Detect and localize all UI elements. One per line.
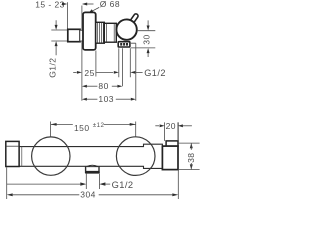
dimension 20 right tail wire [183, 125, 192, 127]
dimension 80 arrow left-pointing [82, 85, 87, 88]
union nut square [68, 29, 80, 41]
outlet knurled nut [118, 42, 130, 47]
dimension G1/2 inlet down-pointing arrow [55, 25, 58, 30]
dimension 25 tail wire [73, 71, 76, 73]
dimension 25 arrow right-pointing [77, 71, 82, 74]
handle knob circle [116, 19, 136, 39]
dimension 304 arrow right end [172, 193, 178, 196]
dimension 30 lower tail wire [147, 53, 149, 57]
dimension 30 upper tail wire [147, 20, 149, 25]
outlet G1/2 tail wire (bottom figure) [105, 183, 110, 185]
left escutcheon circle [32, 137, 70, 175]
dimension 304 arrow left end [7, 193, 13, 196]
bar seam line [21, 147, 23, 167]
extension line escutcheon front face [95, 51, 97, 77]
dimension 30 down-pointing arrow [147, 26, 150, 31]
svg-text:G1/2: G1/2 [47, 58, 57, 78]
dimension 15-23 arrow right-pointing [62, 3, 67, 6]
svg-text:80: 80 [98, 81, 108, 91]
svg-text:30: 30 [142, 34, 152, 44]
svg-text:Ø 68: Ø 68 [100, 0, 120, 9]
dimension 150 line wires [51, 123, 136, 125]
outlet G1/2 extension lines (bottom figure) [86, 174, 99, 189]
outlet G1/2 arrow right-pointing [114, 71, 119, 74]
right shut-off knob [162, 146, 178, 170]
left temperature knob [6, 141, 19, 166]
dimension 103 right wire [116, 98, 131, 100]
svg-text:103: 103 [98, 94, 114, 104]
ribbed union nut ridges [98, 23, 104, 43]
dimension G1/2 inlet up-pointing arrow [55, 41, 58, 46]
outlet G1/2 arrow right-pointing (bottom figure) [80, 182, 86, 185]
svg-text:G1/2: G1/2 [144, 68, 166, 78]
valve axis extension line [138, 30, 156, 32]
outlet aerator ring [85, 171, 100, 174]
dimension G1/2 inlet upper tail wire [55, 20, 57, 25]
dimension 20 left tail wire [155, 125, 159, 127]
dimension 103 arrow right-pointing [131, 98, 136, 101]
dimension 103 arrow left-pointing [82, 98, 87, 101]
extension line from knob front face [131, 43, 136, 100]
dimension 38 down-pointing arrow [190, 164, 193, 169]
supply pipe outline wires [51, 30, 68, 41]
svg-text:G1/2: G1/2 [112, 180, 134, 190]
dimension 304 left wire [13, 194, 80, 196]
valve body housing [104, 23, 116, 42]
outlet bottom extension line [131, 47, 156, 49]
escutcheon wall plate [83, 12, 96, 50]
dimension 80 right wire [112, 85, 118, 87]
dimension 20 extension lines [165, 122, 178, 140]
svg-text:38: 38 [186, 153, 196, 163]
dimension 304 extension lines [7, 122, 179, 199]
dimension 15-23 tail wire [87, 3, 94, 5]
wall face line [81, 6, 83, 101]
right escutcheon circle [116, 137, 155, 176]
outlet G1/2 tail wire [135, 71, 142, 73]
svg-text:15 - 23: 15 - 23 [35, 0, 65, 9]
ribbed union nut body [96, 22, 105, 43]
leader arrowhead for diameter 68 [88, 9, 93, 13]
dimension 150 arrow left end [51, 123, 57, 126]
outlet G1/2 long left wire [7, 183, 81, 185]
dimension 150 extension lines [51, 122, 136, 137]
extension lines under outlet [119, 48, 131, 86]
dimension 15-23 arrow left-pointing at wall [82, 3, 87, 6]
dimension 80 left wire [87, 85, 98, 87]
dimension 20 arrow left-pointing [178, 124, 183, 127]
outlet G1/2 arrow left-pointing [130, 71, 135, 74]
handle lever tab [129, 13, 139, 25]
left knob grip line [6, 145, 19, 147]
dimension 80 arrow right-pointing [117, 85, 122, 88]
dimension 103 left wire [87, 98, 98, 100]
svg-text:25: 25 [84, 68, 94, 78]
svg-text:304: 304 [80, 189, 96, 199]
dimension 25 to G1/2 connecting wire [96, 71, 113, 73]
dimension 38 up-pointing arrow [190, 143, 193, 148]
dimension 38 upper wire [190, 143, 192, 150]
dimension 20 arrow right-pointing [160, 124, 165, 127]
extension line at union nut face [66, 2, 68, 29]
mixer bar body with cone end [19, 144, 162, 168]
dimension 304 right wire [99, 194, 173, 196]
pipe stub behind escutcheon [80, 30, 84, 41]
dimension 150 arrow right end [130, 123, 136, 126]
outlet stub side walls [86, 166, 99, 171]
outlet G1/2 arrow left-pointing (bottom figure) [99, 182, 105, 185]
valve body shading lines [106, 24, 114, 42]
dimension 38 lower wire [190, 163, 192, 170]
svg-text:±12: ±12 [93, 122, 105, 129]
dimension 30 up-pointing arrow [147, 48, 150, 53]
outlet stub collar dome [87, 165, 98, 166]
svg-text:20: 20 [166, 121, 176, 131]
dimension G1/2 inlet lower tail wire [55, 46, 57, 55]
dimension 38 extension lines [178, 143, 199, 169]
outlet knurled nut knurls [120, 43, 128, 46]
right shut-off knob top step [166, 141, 178, 146]
svg-text:150: 150 [74, 123, 90, 133]
leader line for diameter 68 [92, 7, 99, 11]
